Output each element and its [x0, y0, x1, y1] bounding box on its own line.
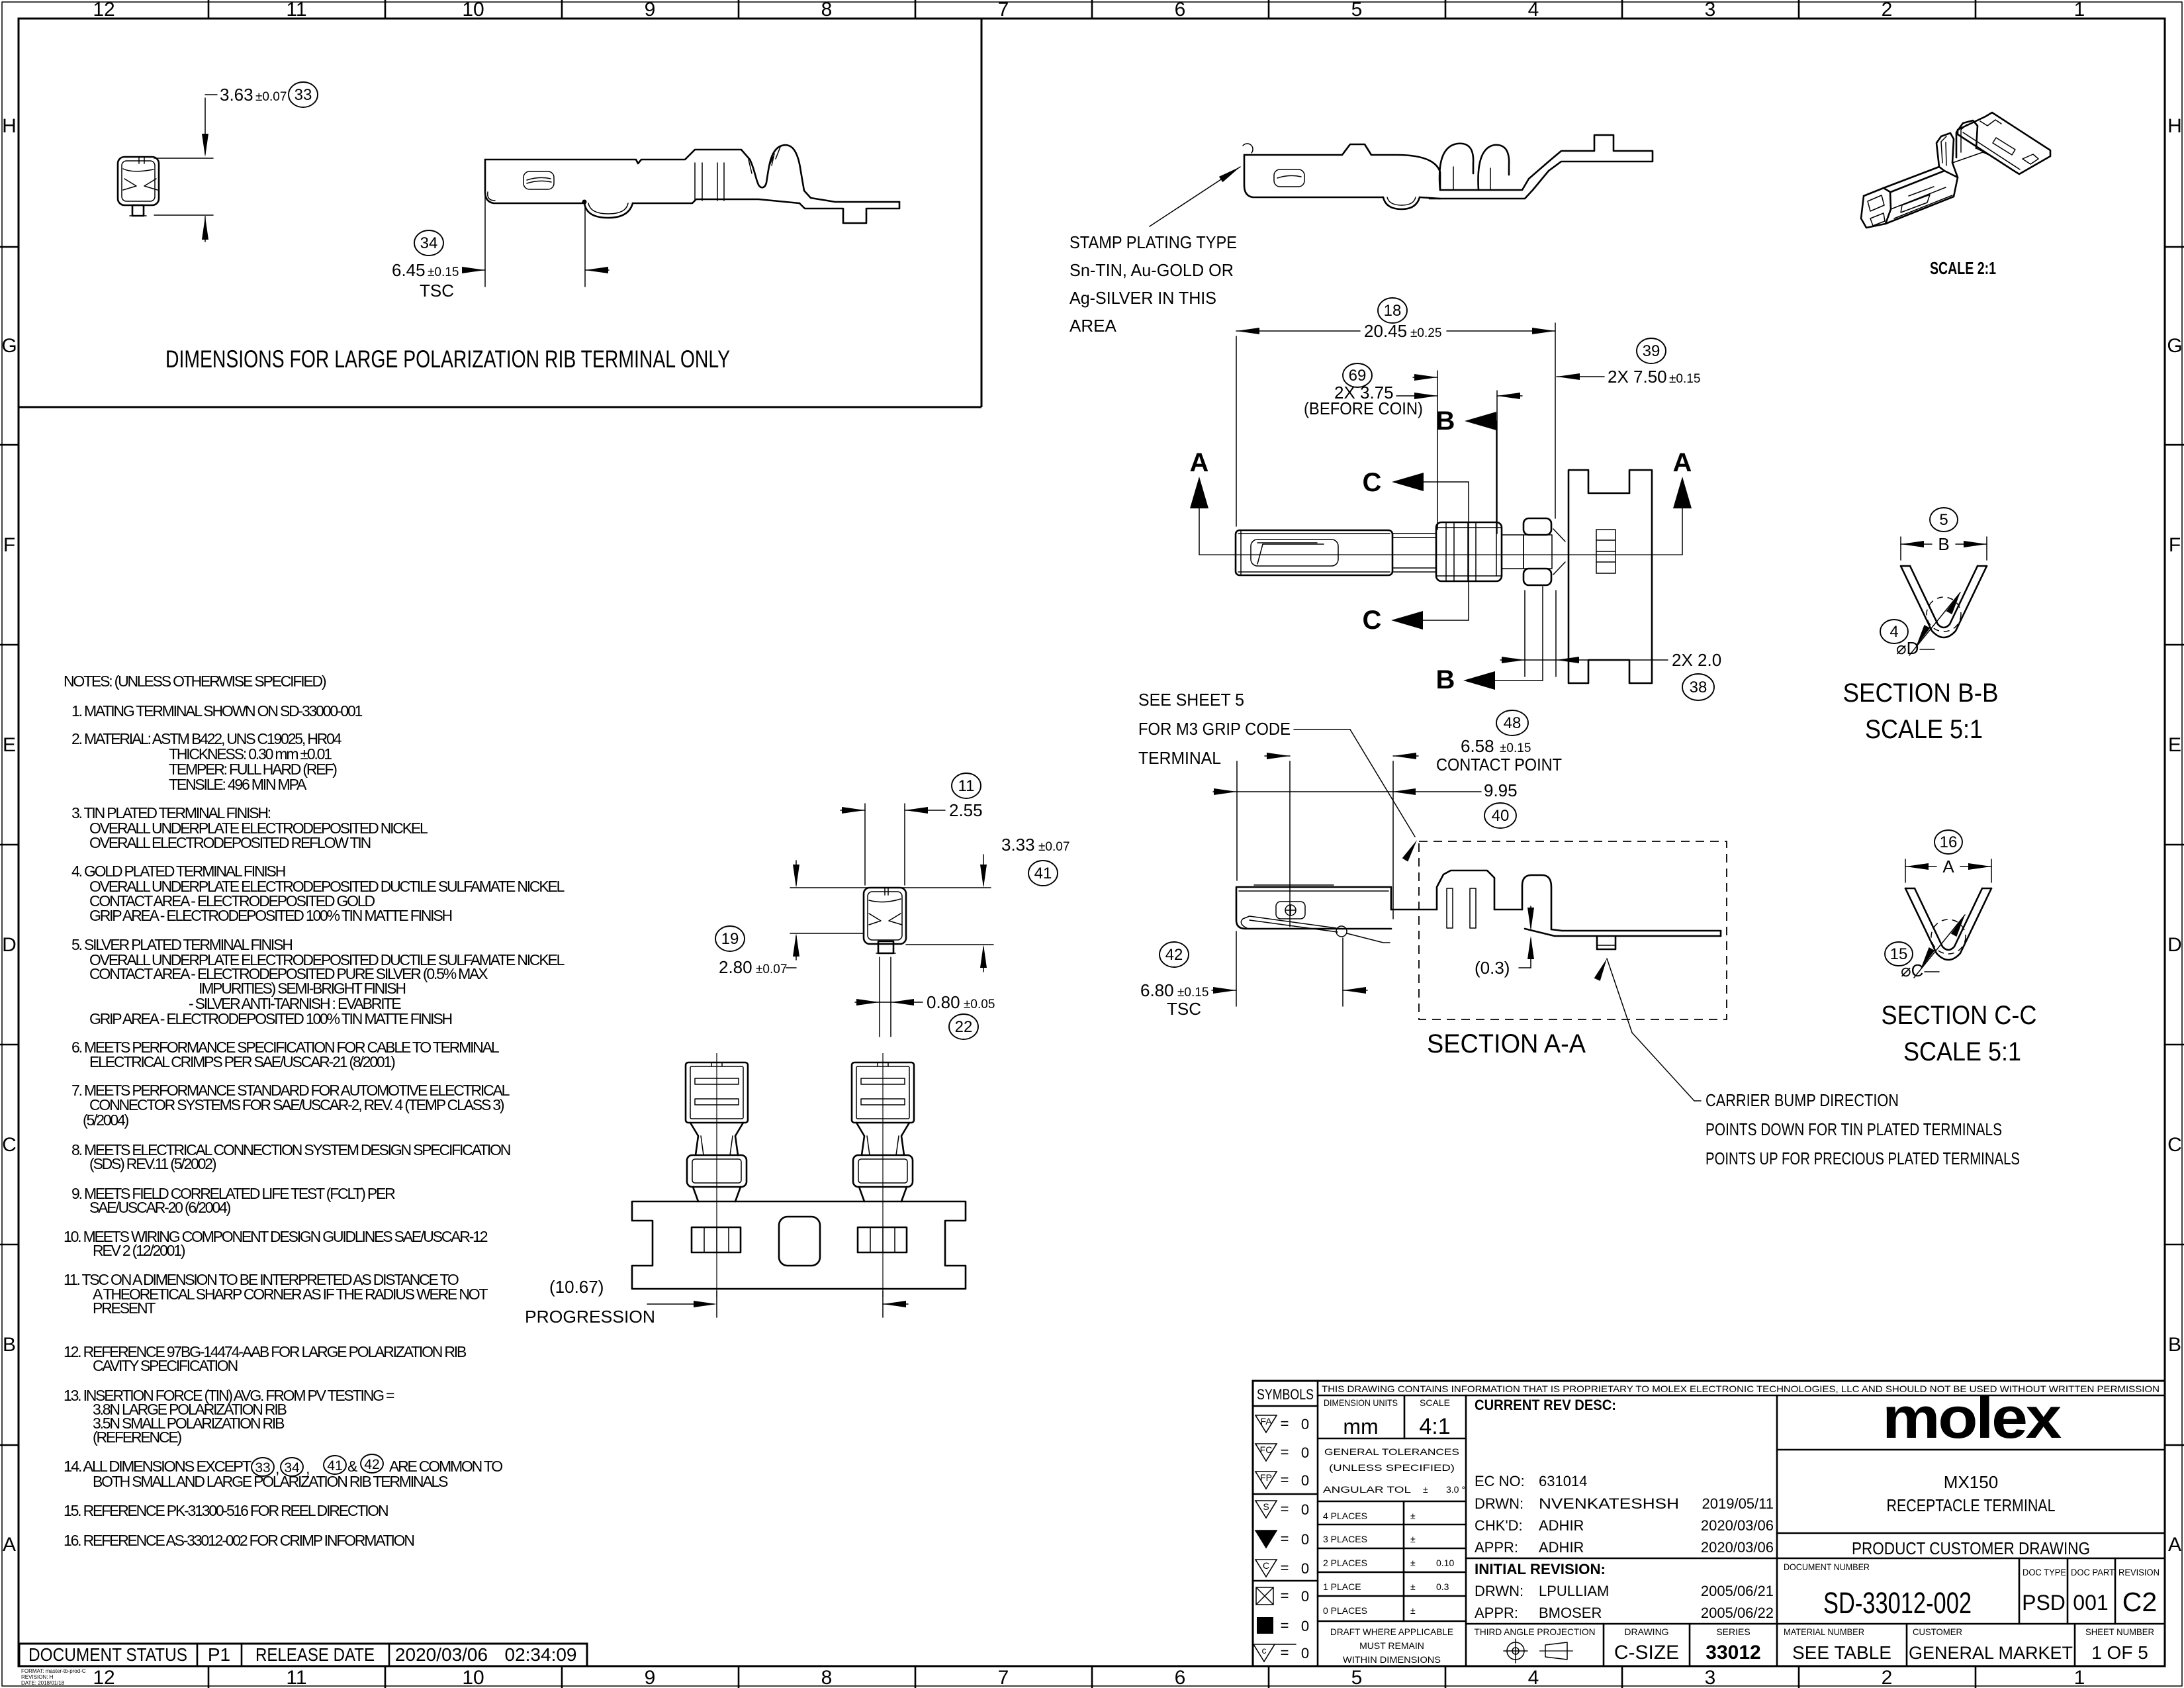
- svg-text:18: 18: [1384, 302, 1402, 320]
- svg-text:DOCUMENT STATUS: DOCUMENT STATUS: [28, 1644, 187, 1665]
- svg-text:11: 11: [286, 1667, 306, 1688]
- svg-text:3: 3: [1705, 0, 1716, 21]
- svg-text:mm: mm: [1343, 1415, 1378, 1438]
- svg-text:CONNECTOR SYSTEMS FOR SAE/USCA: CONNECTOR SYSTEMS FOR SAE/USCAR-2, REV. …: [89, 1096, 504, 1113]
- svg-text:A: A: [1673, 448, 1692, 477]
- svg-text:SECTION C-C: SECTION C-C: [1882, 1001, 2037, 1030]
- svg-text:SERIES: SERIES: [1716, 1626, 1750, 1637]
- svg-text:9: 9: [645, 1667, 656, 1688]
- svg-text:CAVITY SPECIFICATION: CAVITY SPECIFICATION: [93, 1357, 238, 1374]
- svg-text:H: H: [2, 115, 17, 137]
- svg-text:±0.07: ±0.07: [756, 962, 787, 976]
- svg-text:MATERIAL NUMBER: MATERIAL NUMBER: [1784, 1626, 1864, 1637]
- svg-text:33: 33: [295, 86, 312, 104]
- svg-text:3: 3: [1705, 1667, 1716, 1688]
- svg-text:SD-33012-002: SD-33012-002: [1823, 1586, 1972, 1620]
- svg-text:41: 41: [327, 1458, 342, 1474]
- svg-text:15. REFERENCE PK-31300-516 FOR: 15. REFERENCE PK-31300-516 FOR REEL DIRE…: [64, 1502, 388, 1519]
- svg-text:FOR M3 GRIP CODE: FOR M3 GRIP CODE: [1138, 719, 1291, 739]
- svg-text:9: 9: [645, 0, 656, 21]
- svg-text:4: 4: [1528, 0, 1539, 21]
- svg-text:10: 10: [462, 0, 484, 21]
- svg-text:40: 40: [1492, 807, 1510, 825]
- svg-text:REVISION: REVISION: [2118, 1567, 2160, 1577]
- svg-text:0.10: 0.10: [1436, 1558, 1454, 1568]
- svg-text:SAE/USCAR-20 (6/2004): SAE/USCAR-20 (6/2004): [89, 1199, 231, 1216]
- svg-text:A: A: [1942, 857, 1954, 876]
- svg-text:0: 0: [1301, 1444, 1309, 1461]
- svg-text:C: C: [2167, 1134, 2182, 1156]
- svg-text:c: c: [1262, 1645, 1267, 1656]
- svg-text:SHEET NUMBER: SHEET NUMBER: [2085, 1626, 2154, 1637]
- svg-text:DOC TYPE: DOC TYPE: [2023, 1567, 2066, 1577]
- svg-text:4:1: 4:1: [1419, 1414, 1450, 1439]
- svg-text:TERMINAL: TERMINAL: [1138, 748, 1221, 768]
- svg-text:C: C: [2, 1134, 17, 1156]
- svg-text:7: 7: [998, 0, 1009, 21]
- svg-text:11: 11: [958, 777, 975, 795]
- svg-text:(0.3): (0.3): [1475, 958, 1510, 978]
- svg-text:A: A: [2168, 1534, 2181, 1556]
- svg-text:(SDS) REV.11 (5/2002): (SDS) REV.11 (5/2002): [89, 1155, 216, 1172]
- svg-text:2019/05/11: 2019/05/11: [1702, 1495, 1774, 1512]
- svg-text:APPR:: APPR:: [1475, 1605, 1518, 1621]
- svg-text:SCALE 5:1: SCALE 5:1: [1903, 1037, 2021, 1066]
- svg-text:=: =: [1281, 1415, 1289, 1432]
- svg-text:PSD: PSD: [2022, 1591, 2066, 1615]
- svg-text:DIMENSIONS FOR LARGE POLARIZAT: DIMENSIONS FOR LARGE POLARIZATION RIB TE…: [165, 346, 730, 373]
- svg-text:12: 12: [93, 0, 114, 21]
- svg-text:0.3: 0.3: [1436, 1581, 1449, 1592]
- svg-text:2020/03/06: 2020/03/06: [1701, 1517, 1774, 1534]
- svg-text:(REFERENCE): (REFERENCE): [93, 1429, 182, 1446]
- svg-text:1 PLACE: 1 PLACE: [1323, 1581, 1361, 1592]
- svg-text:7: 7: [998, 1667, 1009, 1688]
- svg-text:42: 42: [364, 1457, 379, 1472]
- svg-text:GENERAL MARKET: GENERAL MARKET: [1909, 1643, 2073, 1663]
- svg-text:±0.15: ±0.15: [1177, 986, 1208, 1000]
- svg-text:±: ±: [1410, 1534, 1416, 1544]
- svg-text:P1: P1: [208, 1644, 230, 1665]
- svg-text:A: A: [1190, 448, 1209, 477]
- svg-text:10: 10: [462, 1667, 484, 1688]
- svg-text:4: 4: [1528, 1667, 1539, 1688]
- svg-text:G: G: [1, 335, 17, 357]
- svg-text:16. REFERENCE AS-33012-002 FOR: 16. REFERENCE AS-33012-002 FOR CRIMP INF…: [64, 1532, 414, 1549]
- svg-text:B: B: [1436, 406, 1455, 436]
- svg-text:GRIP AREA - ELECTRODEPOSITED 1: GRIP AREA - ELECTRODEPOSITED 100% TIN MA…: [89, 1010, 452, 1027]
- svg-text:±0.15: ±0.15: [428, 265, 459, 279]
- svg-text:2: 2: [1882, 0, 1893, 21]
- svg-text:THIRD ANGLE PROJECTION: THIRD ANGLE PROJECTION: [1475, 1626, 1596, 1637]
- svg-text:41: 41: [1034, 865, 1052, 882]
- svg-text:POINTS DOWN FOR TIN PLATED TER: POINTS DOWN FOR TIN PLATED TERMINALS: [1706, 1119, 2002, 1139]
- svg-text:Ag-SILVER IN THIS: Ag-SILVER IN THIS: [1069, 288, 1216, 308]
- svg-text:2005/06/22: 2005/06/22: [1701, 1605, 1774, 1621]
- svg-text:INITIAL REVISION:: INITIAL REVISION:: [1475, 1561, 1606, 1577]
- svg-text:DRWN:: DRWN:: [1475, 1583, 1524, 1599]
- svg-text:12: 12: [93, 1667, 114, 1688]
- svg-text:RECEPTACLE TERMINAL: RECEPTACLE TERMINAL: [1887, 1495, 2056, 1515]
- svg-text:4 PLACES: 4 PLACES: [1323, 1511, 1367, 1521]
- svg-text:⌀C: ⌀C: [1901, 961, 1923, 980]
- svg-text:±: ±: [1423, 1484, 1428, 1495]
- svg-text:ADHIR: ADHIR: [1539, 1517, 1584, 1534]
- svg-text:=: =: [1281, 1501, 1289, 1517]
- svg-text:±0.15: ±0.15: [1669, 372, 1700, 386]
- svg-text:MX150: MX150: [1944, 1472, 1998, 1492]
- svg-text:0: 0: [1301, 1472, 1309, 1489]
- svg-text:B: B: [1938, 534, 1949, 554]
- svg-text:RELEASE DATE: RELEASE DATE: [255, 1644, 375, 1665]
- svg-text:2 PLACES: 2 PLACES: [1323, 1558, 1367, 1568]
- svg-text:B: B: [2168, 1334, 2181, 1356]
- svg-text:0: 0: [1301, 1645, 1309, 1662]
- svg-text:NVENKATESHSH: NVENKATESHSH: [1539, 1495, 1679, 1512]
- svg-text:DRAWING: DRAWING: [1624, 1626, 1668, 1637]
- svg-text:molex: molex: [1882, 1385, 2062, 1450]
- svg-text:631014: 631014: [1539, 1473, 1587, 1489]
- svg-text:1 OF 5: 1 OF 5: [2091, 1642, 2148, 1663]
- svg-text:D: D: [2167, 934, 2182, 956]
- svg-text:C-SIZE: C-SIZE: [1614, 1642, 1679, 1664]
- svg-text:CURRENT REV DESC:: CURRENT REV DESC:: [1475, 1397, 1616, 1413]
- svg-text:001: 001: [2073, 1591, 2108, 1615]
- svg-text:PRESENT: PRESENT: [93, 1299, 156, 1317]
- svg-text:33: 33: [255, 1460, 270, 1476]
- svg-text:GRIP AREA - ELECTRODEPOSITED 1: GRIP AREA - ELECTRODEPOSITED 100% TIN MA…: [89, 907, 452, 924]
- svg-text:6: 6: [1175, 1667, 1186, 1688]
- svg-text:±: ±: [1410, 1581, 1416, 1592]
- svg-text:69: 69: [1349, 367, 1367, 385]
- svg-text:REV 2 (12/2001): REV 2 (12/2001): [93, 1242, 185, 1259]
- svg-text:CUSTOMER: CUSTOMER: [1913, 1626, 1962, 1637]
- svg-text:1: 1: [2074, 0, 2085, 21]
- svg-text:C: C: [1363, 606, 1382, 635]
- svg-text:&: &: [347, 1458, 357, 1475]
- svg-text:H: H: [2167, 115, 2182, 137]
- svg-text:EC NO:: EC NO:: [1475, 1473, 1525, 1489]
- svg-text:(10.67): (10.67): [549, 1277, 604, 1297]
- svg-text:±0.15: ±0.15: [1500, 741, 1531, 755]
- svg-text:C: C: [1363, 468, 1382, 497]
- svg-text:SECTION A-A: SECTION A-A: [1427, 1029, 1586, 1058]
- svg-text:0 PLACES: 0 PLACES: [1323, 1605, 1367, 1616]
- svg-text:FC: FC: [1260, 1444, 1273, 1455]
- svg-text:6.80: 6.80: [1140, 980, 1174, 1000]
- svg-text:C: C: [1263, 1560, 1269, 1571]
- svg-text:=: =: [1281, 1560, 1289, 1576]
- svg-text:NOTES: (UNLESS OTHERWISE SPECI: NOTES: (UNLESS OTHERWISE SPECIFIED): [64, 673, 326, 690]
- svg-text:(UNLESS SPECIFIED): (UNLESS SPECIFIED): [1329, 1462, 1455, 1473]
- svg-text:2X 2.0: 2X 2.0: [1672, 650, 1721, 670]
- svg-text:2.55: 2.55: [949, 800, 983, 820]
- svg-text:±: ±: [1410, 1605, 1416, 1616]
- svg-text:0: 0: [1301, 1501, 1309, 1518]
- svg-text:E: E: [3, 734, 16, 756]
- svg-text:SECTION B-B: SECTION B-B: [1843, 679, 1999, 708]
- svg-text:⌀D: ⌀D: [1896, 638, 1919, 658]
- svg-text:2X 7.50: 2X 7.50: [1608, 367, 1667, 387]
- svg-text:=: =: [1281, 1644, 1289, 1661]
- svg-text:0: 0: [1301, 1416, 1309, 1432]
- svg-text:LPULLIAM: LPULLIAM: [1539, 1583, 1609, 1599]
- svg-text:AREA: AREA: [1069, 316, 1116, 336]
- svg-text:0: 0: [1301, 1618, 1309, 1634]
- svg-text:MUST REMAIN: MUST REMAIN: [1359, 1640, 1424, 1651]
- svg-text:TSC: TSC: [420, 281, 454, 301]
- svg-text:±0.07: ±0.07: [255, 90, 287, 104]
- svg-text:SEE SHEET 5: SEE SHEET 5: [1138, 690, 1244, 710]
- svg-text:SCALE 5:1: SCALE 5:1: [1865, 715, 1983, 744]
- svg-text:ADHIR: ADHIR: [1539, 1539, 1584, 1556]
- svg-text:REVISION: H: REVISION: H: [21, 1674, 54, 1680]
- svg-text:F: F: [3, 534, 15, 556]
- svg-text:6.58: 6.58: [1461, 736, 1494, 756]
- svg-text:02:34:09: 02:34:09: [505, 1644, 577, 1665]
- svg-text:FORMAT: master-tb-prod-C: FORMAT: master-tb-prod-C: [21, 1668, 86, 1674]
- svg-text:±: ±: [1410, 1558, 1416, 1568]
- svg-text:1: 1: [2074, 1667, 2085, 1688]
- svg-text:E: E: [2168, 734, 2181, 756]
- svg-text:G: G: [2167, 335, 2182, 357]
- svg-text:=: =: [1281, 1587, 1289, 1604]
- svg-text:FP: FP: [1260, 1472, 1272, 1483]
- svg-text:CHK'D:: CHK'D:: [1475, 1517, 1523, 1534]
- svg-text:34: 34: [284, 1460, 300, 1476]
- svg-text:19: 19: [721, 930, 739, 948]
- svg-text:SCALE: SCALE: [1420, 1397, 1450, 1408]
- svg-text:DIMENSION UNITS: DIMENSION UNITS: [1324, 1397, 1398, 1408]
- svg-text:OVERALL ELECTRODEPOSITED REFLO: OVERALL ELECTRODEPOSITED REFLOW TIN: [89, 834, 371, 851]
- svg-text:DATE: 2018/01/18: DATE: 2018/01/18: [21, 1680, 65, 1686]
- svg-text:11: 11: [286, 0, 306, 21]
- svg-text:SCALE 2:1: SCALE 2:1: [1930, 258, 1996, 278]
- svg-text:0: 0: [1301, 1560, 1309, 1577]
- svg-text:POINTS UP FOR PRECIOUS PLATED: POINTS UP FOR PRECIOUS PLATED TERMINALS: [1706, 1149, 2020, 1168]
- svg-text:5: 5: [1939, 511, 1948, 529]
- svg-text:±0.25: ±0.25: [1410, 326, 1441, 340]
- svg-text:39: 39: [1643, 342, 1661, 360]
- svg-text:=: =: [1281, 1444, 1289, 1460]
- svg-text:=: =: [1281, 1472, 1289, 1488]
- svg-text:DRWN:: DRWN:: [1475, 1495, 1524, 1512]
- svg-text:42: 42: [1165, 946, 1183, 964]
- svg-text:2020/03/06: 2020/03/06: [1701, 1539, 1774, 1556]
- svg-text:33012: 33012: [1706, 1642, 1760, 1664]
- svg-text:TSC: TSC: [1167, 999, 1201, 1019]
- svg-text:(5/2004): (5/2004): [83, 1111, 129, 1129]
- svg-text:C2: C2: [2122, 1587, 2157, 1617]
- svg-text:3.0 °: 3.0 °: [1446, 1484, 1465, 1495]
- svg-text:48: 48: [1504, 714, 1522, 732]
- svg-text:FA: FA: [1260, 1416, 1272, 1427]
- svg-text:B: B: [1436, 665, 1455, 694]
- svg-text:1. MATING TERMINAL SHOWN ON SD: 1. MATING TERMINAL SHOWN ON SD-33000-001: [71, 702, 363, 720]
- svg-text:±0.05: ±0.05: [964, 998, 995, 1011]
- svg-text:DOCUMENT NUMBER: DOCUMENT NUMBER: [1784, 1562, 1870, 1572]
- svg-text:STAMP PLATING TYPE: STAMP PLATING TYPE: [1069, 232, 1237, 252]
- svg-text:S: S: [1263, 1501, 1269, 1512]
- svg-text:DOC PART: DOC PART: [2071, 1567, 2115, 1577]
- svg-text:38: 38: [1690, 679, 1707, 696]
- svg-text:34: 34: [420, 234, 438, 252]
- svg-text:2: 2: [1882, 1667, 1893, 1688]
- svg-text:8: 8: [821, 1667, 833, 1688]
- svg-text:0.80: 0.80: [927, 992, 960, 1012]
- svg-text:3.63: 3.63: [220, 85, 253, 105]
- svg-text:ELECTRICAL CRIMPS PER SAE/USCA: ELECTRICAL CRIMPS PER SAE/USCAR-21 (8/20…: [89, 1053, 395, 1070]
- svg-text:±: ±: [1410, 1511, 1416, 1521]
- svg-text:2005/06/21: 2005/06/21: [1701, 1583, 1774, 1599]
- svg-text:=: =: [1281, 1617, 1289, 1634]
- svg-text:CARRIER BUMP DIRECTION: CARRIER BUMP DIRECTION: [1706, 1090, 1899, 1110]
- svg-text:9.95: 9.95: [1484, 780, 1518, 800]
- svg-text:16: 16: [1940, 833, 1958, 851]
- svg-text:TENSILE: 496 MIN MPA: TENSILE: 496 MIN MPA: [169, 776, 307, 793]
- svg-text:2020/03/06: 2020/03/06: [395, 1644, 488, 1665]
- svg-text:B: B: [3, 1334, 16, 1356]
- svg-text:BMOSER: BMOSER: [1539, 1605, 1602, 1621]
- svg-text:D: D: [2, 934, 17, 956]
- svg-text:(BEFORE COIN): (BEFORE COIN): [1304, 399, 1423, 418]
- svg-text:Sn-TIN, Au-GOLD OR: Sn-TIN, Au-GOLD OR: [1069, 260, 1234, 280]
- svg-text:WITHIN DIMENSIONS: WITHIN DIMENSIONS: [1343, 1654, 1441, 1665]
- svg-text:PROGRESSION: PROGRESSION: [525, 1307, 655, 1327]
- svg-text:±0.07: ±0.07: [1038, 840, 1069, 854]
- svg-text:DRAFT WHERE APPLICABLE: DRAFT WHERE APPLICABLE: [1330, 1626, 1453, 1637]
- svg-text:5: 5: [1351, 1667, 1363, 1688]
- svg-text:=: =: [1281, 1530, 1289, 1547]
- svg-text:6: 6: [1175, 0, 1186, 21]
- svg-text:3 PLACES: 3 PLACES: [1323, 1534, 1367, 1544]
- svg-text:SEE TABLE: SEE TABLE: [1792, 1642, 1891, 1663]
- svg-text:ARE COMMON TO: ARE COMMON TO: [389, 1458, 502, 1475]
- svg-text:5: 5: [1351, 0, 1363, 21]
- svg-text:3.33: 3.33: [1001, 835, 1035, 855]
- svg-text:SYMBOLS: SYMBOLS: [1257, 1386, 1314, 1403]
- svg-text:GENERAL TOLERANCES: GENERAL TOLERANCES: [1324, 1446, 1459, 1457]
- svg-text:2.80: 2.80: [719, 957, 752, 977]
- svg-text:ANGULAR TOL: ANGULAR TOL: [1323, 1484, 1411, 1495]
- svg-text:F: F: [2169, 534, 2181, 556]
- svg-text:CONTACT POINT: CONTACT POINT: [1436, 755, 1562, 774]
- svg-text:22: 22: [955, 1018, 973, 1036]
- svg-text:PRODUCT CUSTOMER DRAWING: PRODUCT CUSTOMER DRAWING: [1852, 1538, 2090, 1558]
- svg-text:8: 8: [821, 0, 833, 21]
- svg-text:20.45: 20.45: [1364, 321, 1407, 341]
- svg-text:0: 0: [1301, 1531, 1309, 1548]
- svg-text:APPR:: APPR:: [1475, 1539, 1518, 1556]
- svg-text:0: 0: [1301, 1588, 1309, 1605]
- svg-text:A: A: [3, 1534, 16, 1556]
- svg-text:6.45: 6.45: [392, 260, 426, 280]
